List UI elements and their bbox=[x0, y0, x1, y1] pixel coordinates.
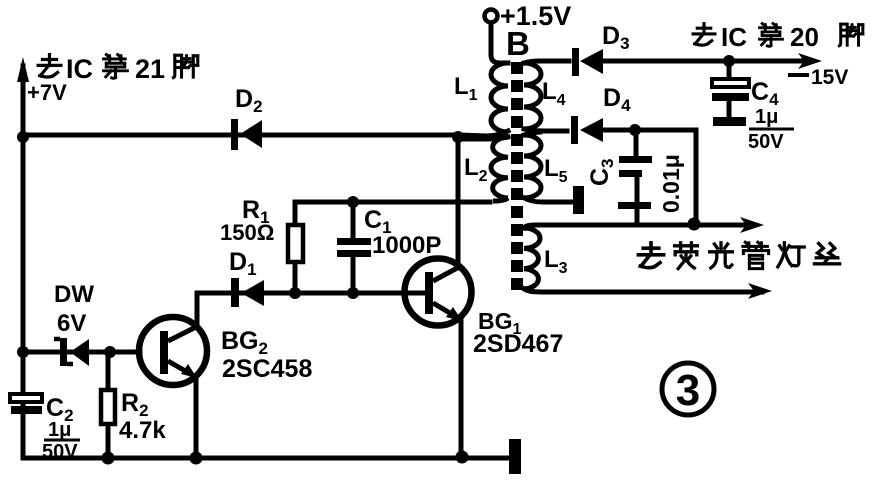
svg-text:IC: IC bbox=[721, 22, 747, 52]
svg-text:50V: 50V bbox=[42, 441, 78, 463]
svg-text:150Ω: 150Ω bbox=[220, 220, 274, 245]
svg-text:IC: IC bbox=[66, 54, 93, 84]
svg-text:0.01μ: 0.01μ bbox=[658, 154, 684, 213]
svg-text:1μ: 1μ bbox=[755, 106, 778, 128]
svg-text:6V: 6V bbox=[57, 310, 86, 337]
svg-text:20: 20 bbox=[790, 22, 819, 52]
svg-text:50V: 50V bbox=[748, 131, 784, 153]
svg-text:3: 3 bbox=[676, 366, 700, 415]
svg-text:2SC458: 2SC458 bbox=[222, 355, 312, 383]
svg-text:15V: 15V bbox=[811, 66, 848, 89]
svg-text:B: B bbox=[506, 25, 530, 62]
svg-text:21: 21 bbox=[135, 54, 165, 84]
svg-text:DW: DW bbox=[54, 281, 94, 308]
svg-text:1μ: 1μ bbox=[48, 419, 71, 441]
svg-text:4.7k: 4.7k bbox=[119, 417, 166, 444]
svg-text:+7V: +7V bbox=[27, 80, 67, 105]
svg-text:2SD467: 2SD467 bbox=[473, 330, 563, 358]
svg-text:1000P: 1000P bbox=[372, 232, 441, 259]
